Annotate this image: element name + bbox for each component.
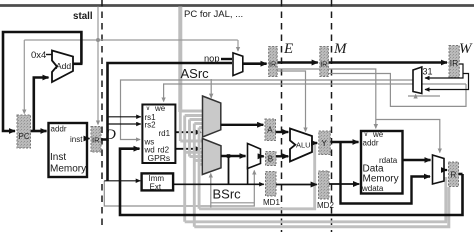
svg-text:MD2: MD2 bbox=[317, 201, 334, 210]
svg-text:Add: Add bbox=[56, 61, 71, 71]
svg-text:Memory: Memory bbox=[363, 174, 399, 185]
svg-text:R: R bbox=[451, 171, 457, 180]
svg-text:IR: IR bbox=[450, 58, 459, 68]
svg-text:E: E bbox=[283, 41, 293, 57]
svg-text:M: M bbox=[333, 41, 348, 57]
svg-text:Y: Y bbox=[322, 139, 328, 148]
svg-text:nop: nop bbox=[204, 53, 220, 63]
svg-text:IR: IR bbox=[92, 136, 100, 145]
svg-text:wdata: wdata bbox=[361, 184, 384, 193]
svg-text:addr: addr bbox=[363, 139, 379, 148]
svg-text:rd1: rd1 bbox=[159, 129, 171, 138]
svg-text:Inst: Inst bbox=[50, 152, 66, 163]
svg-text:stall: stall bbox=[73, 11, 93, 22]
svg-text:B: B bbox=[268, 155, 273, 164]
svg-text:ASrc: ASrc bbox=[181, 66, 210, 81]
svg-text:ALU: ALU bbox=[296, 140, 311, 149]
svg-text:we: we bbox=[154, 104, 166, 113]
svg-text:rs2: rs2 bbox=[145, 121, 157, 130]
svg-text:inst: inst bbox=[70, 135, 83, 144]
svg-text:0x4: 0x4 bbox=[31, 50, 46, 61]
svg-text:Ext: Ext bbox=[150, 183, 162, 192]
svg-text:BSrc: BSrc bbox=[213, 187, 242, 202]
svg-text:Memory: Memory bbox=[50, 164, 86, 175]
svg-text:PC: PC bbox=[19, 132, 30, 141]
svg-text:PC for JAL, ...: PC for JAL, ... bbox=[184, 9, 243, 20]
svg-text:GPRs: GPRs bbox=[148, 153, 171, 163]
svg-text:∨: ∨ bbox=[364, 132, 368, 138]
svg-text:MD1: MD1 bbox=[263, 198, 280, 207]
svg-text:A: A bbox=[267, 126, 273, 135]
svg-text:IR: IR bbox=[320, 59, 327, 68]
svg-text:addr: addr bbox=[51, 125, 67, 134]
svg-text:∨: ∨ bbox=[146, 106, 150, 112]
svg-text:W: W bbox=[459, 41, 473, 57]
svg-text:IR: IR bbox=[269, 59, 276, 68]
svg-text:31: 31 bbox=[423, 67, 433, 77]
